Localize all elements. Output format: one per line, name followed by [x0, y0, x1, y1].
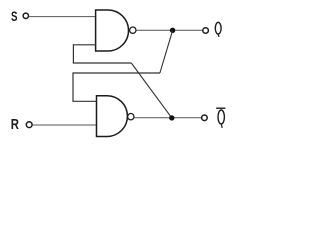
wire feedback: vertical x73 lower [72, 72, 74, 101]
svg-text:R: R [11, 116, 19, 133]
nand gate U2 output bubble [128, 114, 134, 120]
wire feedback: U1 second input horizontal [73, 44, 96, 46]
nand gate U1 output bubble [130, 27, 136, 33]
nand gate U2 (bottom) body [97, 96, 128, 137]
nand gate U1 (top) body [96, 10, 129, 51]
output terminal Q-bar [202, 115, 208, 121]
wire feedback: horizontal y63 [73, 62, 132, 64]
overline of Q-bar [216, 107, 225, 109]
svg-text:S: S [11, 9, 18, 24]
wire U2 output to Q-bar [134, 117, 201, 119]
input terminal R [26, 122, 32, 128]
output label Q-bar (narrow oval with tail) [218, 110, 224, 128]
wire feedback: U2 first input horizontal [72, 100, 96, 102]
junction node at Q-bar [169, 115, 174, 120]
output label Q (narrow oval with tail) [215, 22, 221, 37]
output terminal Q [203, 28, 209, 34]
wire feedback: vertical x73 upper [72, 44, 74, 63]
input terminal S [23, 13, 28, 18]
junction node at Q [170, 28, 175, 33]
wire R to gate U2 input 2 [32, 124, 96, 126]
wire U1 output to Q [136, 29, 202, 31]
wire diagonal Q junction down to y73 [160, 31, 173, 73]
wire diagonal y63 to Q-bar junction [131, 63, 172, 118]
wire S to gate U1 input 1 [29, 16, 96, 18]
wire feedback: horizontal y73 [73, 72, 160, 74]
